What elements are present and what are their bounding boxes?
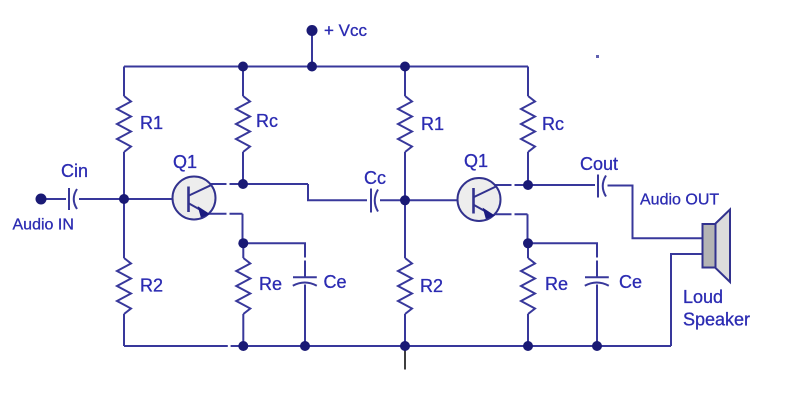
resistor Re stage2	[521, 258, 535, 314]
node rail Ce2	[592, 341, 602, 351]
transistor Q1 stage1	[173, 177, 216, 220]
node emitter stage1	[238, 238, 248, 248]
wire collector step to Cc	[308, 184, 367, 200]
svg-text:Ce: Ce	[619, 272, 642, 292]
node rail Rc1	[238, 62, 248, 72]
svg-text:R1: R1	[140, 113, 163, 133]
node Audio IN terminal	[36, 194, 47, 205]
svg-text:R1: R1	[421, 114, 444, 134]
node rail Vcc	[307, 62, 317, 72]
resistor R2 stage2	[398, 258, 412, 314]
node rail R1-2	[400, 62, 410, 72]
stray dot	[596, 55, 599, 58]
capacitor Ce stage1	[293, 277, 317, 286]
node collector stage1	[238, 179, 248, 189]
resistor Rc stage2	[521, 96, 535, 152]
svg-text:Speaker: Speaker	[683, 310, 750, 330]
wire Vcc stem	[311, 31, 313, 67]
svg-text:Q1: Q1	[464, 151, 488, 171]
capacitor Ce stage2	[585, 277, 609, 286]
node rail R2-2	[400, 341, 410, 351]
svg-text:Cout: Cout	[580, 154, 618, 174]
loudspeaker	[703, 210, 731, 283]
svg-text:Cc: Cc	[364, 168, 386, 188]
resistor Rc stage1	[236, 96, 250, 152]
node rail Re1	[238, 341, 248, 351]
node emitter stage2	[523, 238, 533, 248]
wire Cout to audio out corner	[608, 186, 703, 239]
wire collector stage2	[494, 184, 595, 186]
wire emitter stage1	[208, 214, 243, 243]
wire base node to Q1 stage1	[124, 198, 173, 200]
svg-text:R2: R2	[420, 276, 443, 296]
capacitor Cin	[69, 188, 77, 210]
resistor R1 stage2	[398, 96, 412, 152]
wire Ce to rail stage1	[304, 285, 306, 347]
wire Re leads stage1	[242, 243, 244, 346]
resistor Re stage1	[236, 258, 250, 314]
capacitor Cc	[371, 189, 378, 213]
wire Ce to rail stage2	[596, 285, 598, 347]
wire emitter node to Ce stage1	[243, 243, 305, 277]
wire speaker return	[671, 254, 702, 346]
ground stub	[404, 351, 406, 370]
svg-text:Loud: Loud	[683, 287, 723, 307]
node Cc output	[400, 195, 410, 205]
svg-text:Re: Re	[545, 274, 568, 294]
transistor Q1 stage2	[458, 178, 501, 221]
wire collector stage1	[209, 183, 308, 185]
wire node to Q1 stage2	[405, 199, 458, 201]
svg-text:R2: R2	[140, 276, 163, 296]
wire R2 leads stage1	[123, 199, 125, 346]
wire emitter node to Ce stage2	[528, 243, 597, 277]
wire R1 leads stage2	[404, 67, 406, 201]
node rail Re2	[523, 341, 533, 351]
wire Re leads stage2	[527, 243, 529, 346]
svg-text:Audio IN: Audio IN	[13, 217, 74, 234]
svg-text:Cin: Cin	[61, 161, 88, 181]
wire top rail	[124, 66, 528, 68]
node collector stage2	[523, 180, 533, 190]
wire emitter stage2	[493, 214, 528, 243]
svg-text:Re: Re	[259, 274, 282, 294]
node Vcc terminal	[307, 25, 318, 36]
wire bottom rail	[124, 345, 671, 347]
wire audio-in to Cin	[46, 198, 66, 200]
wire Cc to node	[380, 199, 405, 201]
svg-text:Rc: Rc	[256, 111, 278, 131]
svg-text:Rc: Rc	[542, 114, 564, 134]
wire Rc leads stage1	[242, 67, 244, 185]
svg-text:Q1: Q1	[173, 152, 197, 172]
node rail Ce1	[300, 341, 310, 351]
wire Rc leads stage2	[527, 67, 529, 186]
svg-text:Audio OUT: Audio OUT	[640, 192, 719, 209]
node base stage1	[119, 194, 129, 204]
svg-text:+ Vcc: + Vcc	[324, 21, 367, 40]
resistor R2 stage1	[117, 258, 131, 314]
wire R1 leads stage1	[123, 67, 125, 200]
wire R2 leads stage2	[404, 200, 406, 346]
svg-text:Ce: Ce	[324, 272, 347, 292]
wire Cin to base node	[79, 198, 124, 200]
capacitor Cout	[598, 175, 606, 198]
resistor R1 stage1	[117, 96, 131, 152]
